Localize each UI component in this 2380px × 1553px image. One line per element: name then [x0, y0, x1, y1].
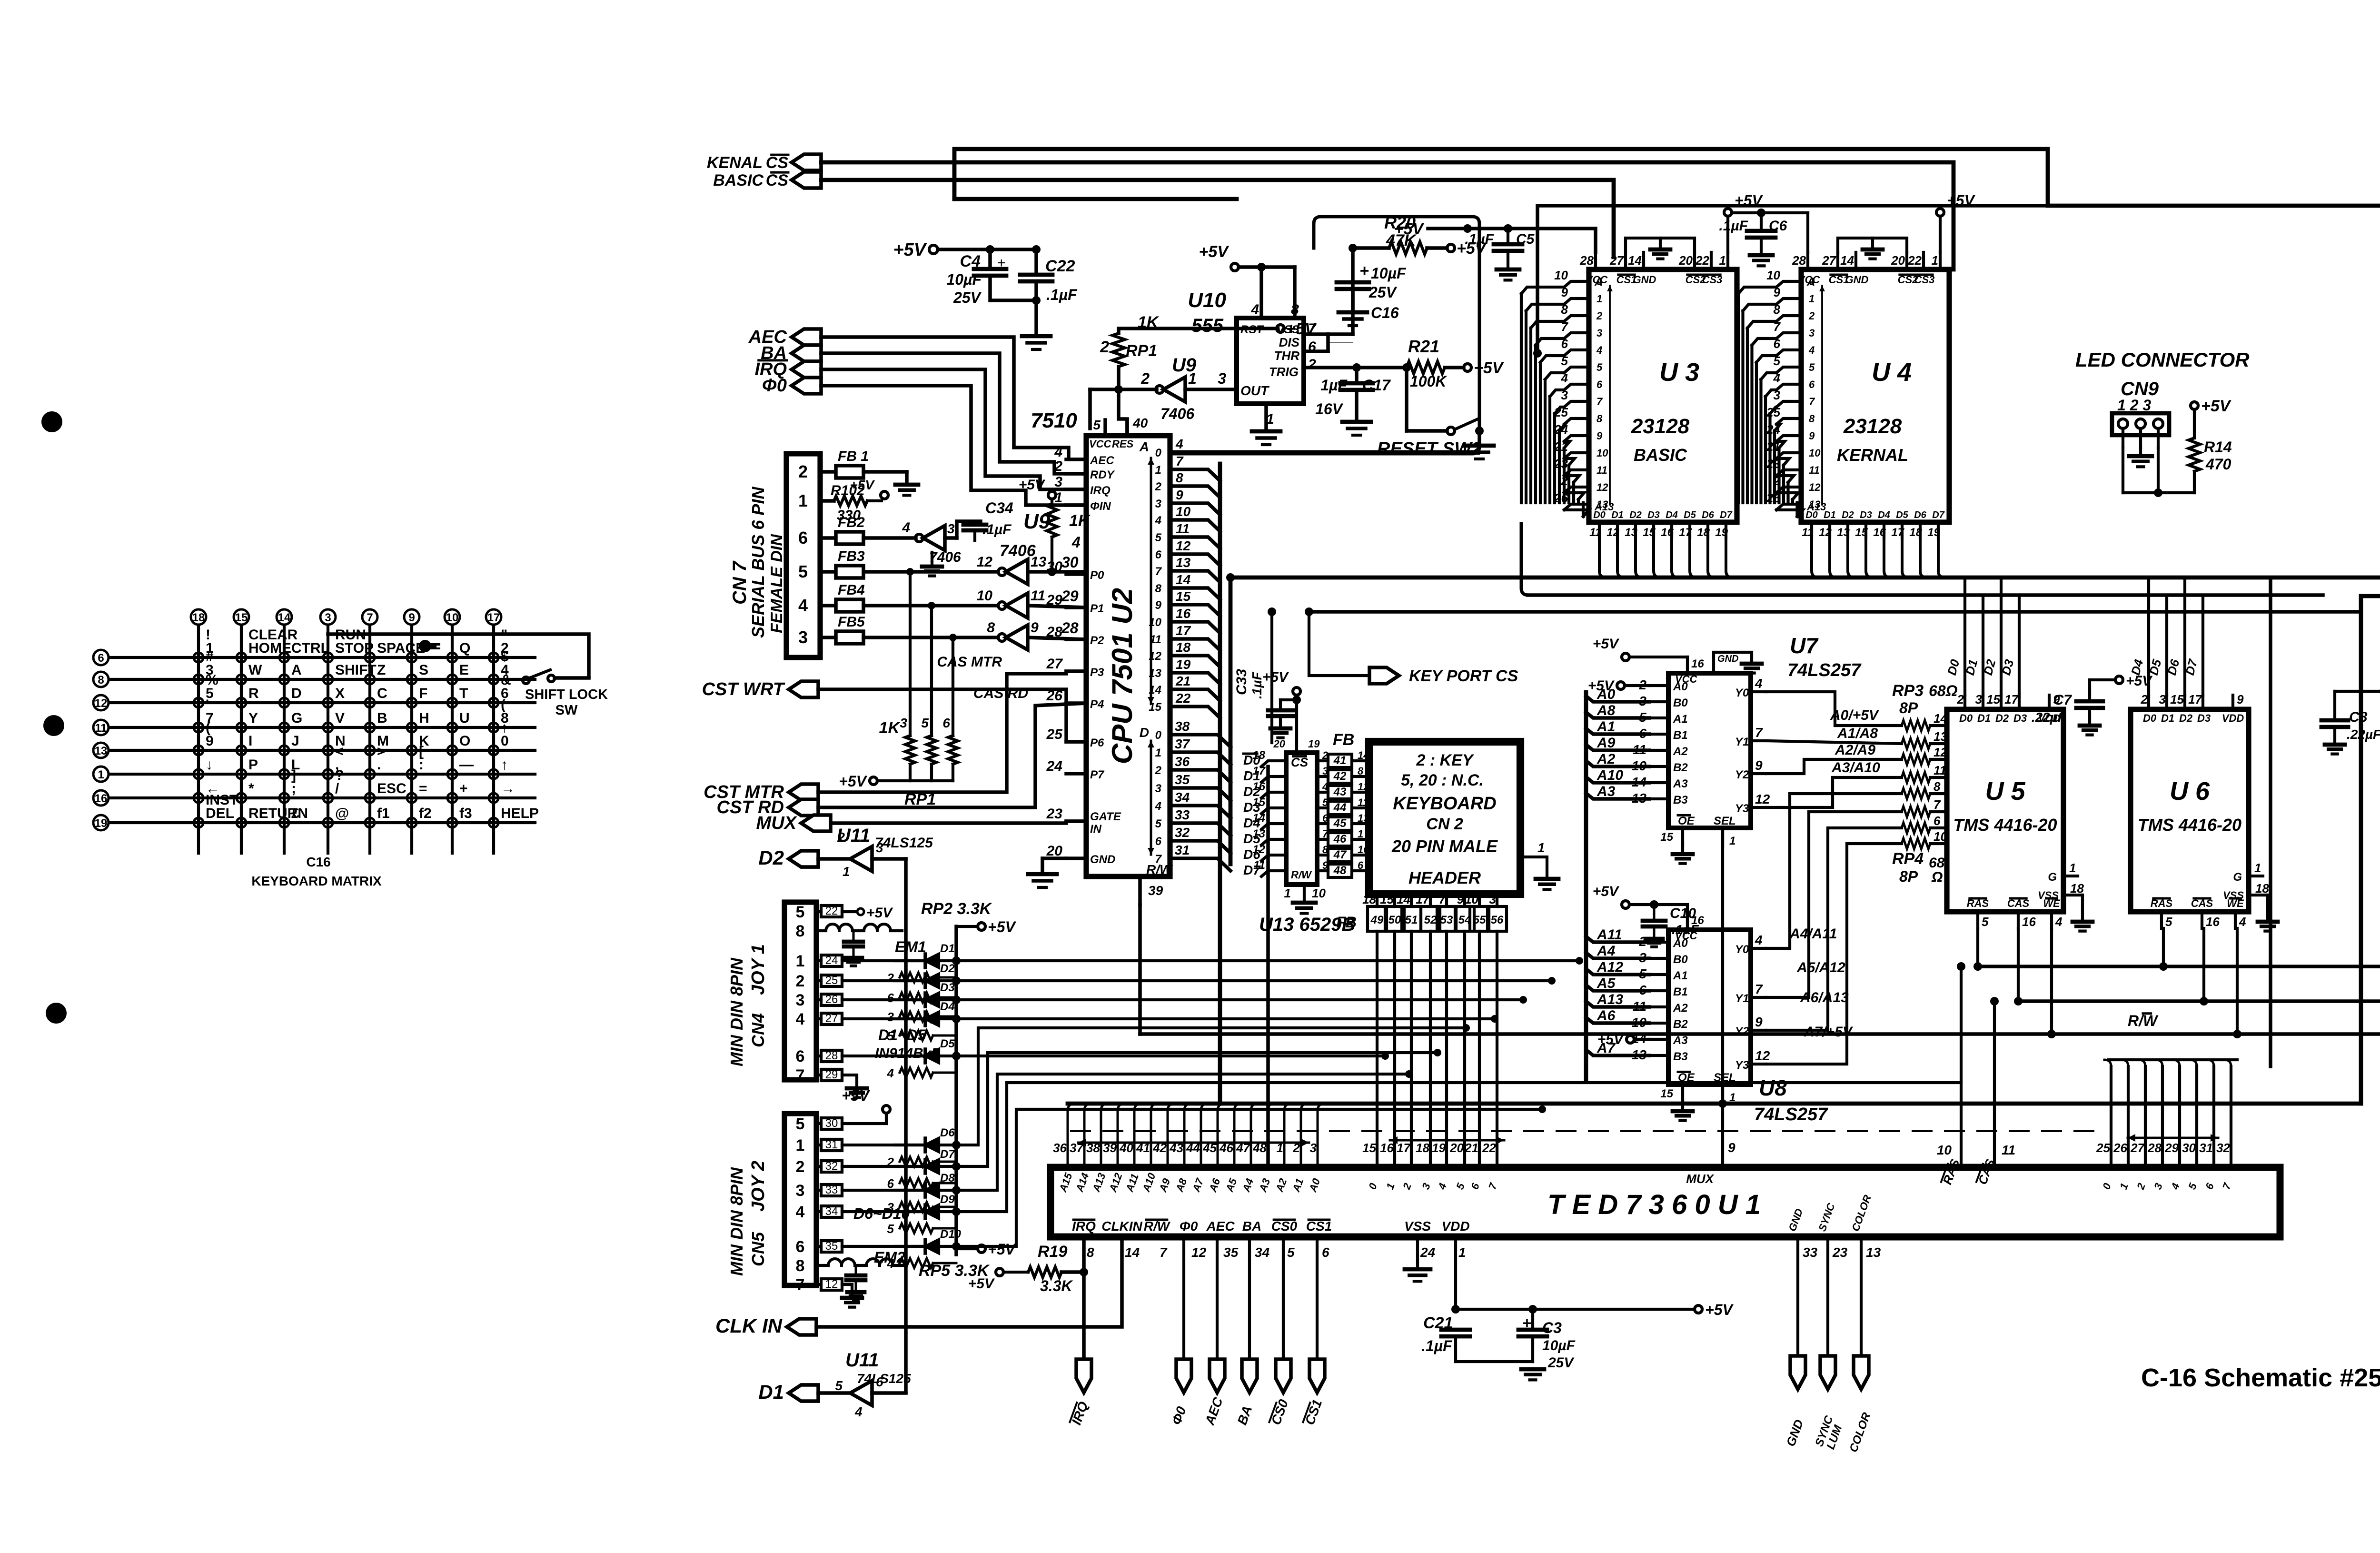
- svg-text:16V: 16V: [1315, 400, 1344, 418]
- svg-text:A3: A3: [1673, 1034, 1688, 1047]
- svg-text:*: *: [248, 781, 254, 796]
- TED bottom control pins: [1072, 1219, 1332, 1260]
- svg-text:A12: A12: [1597, 959, 1623, 975]
- svg-text:A: A: [1139, 439, 1149, 454]
- wire U3 data verticals: [1599, 538, 1733, 577]
- svg-text:3: 3: [947, 521, 955, 536]
- svg-text:43: 43: [1333, 786, 1347, 798]
- buffer to P1: [977, 587, 1086, 618]
- svg-text:CN4: CN4: [748, 1013, 768, 1047]
- ROM U3 power hookup: [1626, 192, 1763, 259]
- svg-text:6: 6: [1809, 378, 1815, 390]
- keyboard matrix grid wires: [109, 625, 535, 853]
- svg-text:4: 4: [1250, 302, 1259, 318]
- svg-text:D10: D10: [940, 1228, 962, 1241]
- svg-text:20: 20: [1273, 738, 1286, 750]
- svg-text:53: 53: [1440, 914, 1453, 926]
- svg-text:10: 10: [1937, 1143, 1952, 1157]
- svg-text:→: →: [501, 781, 515, 796]
- svg-text:10µF: 10µF: [1542, 1338, 1576, 1354]
- svg-text:A0: A0: [1597, 687, 1616, 702]
- svg-text:56: 56: [1491, 914, 1504, 926]
- svg-text:R: R: [248, 686, 259, 701]
- svg-text:8: 8: [1176, 470, 1183, 485]
- svg-text:12: 12: [1176, 538, 1191, 553]
- svg-text:B0: B0: [1673, 697, 1688, 709]
- svg-text:34: 34: [1175, 790, 1190, 805]
- punch hole bottom: [46, 1003, 67, 1024]
- TED VSS VDD pins: [1404, 1219, 1470, 1281]
- svg-text:W: W: [2143, 1012, 2159, 1029]
- svg-text:TMS 4416-20: TMS 4416-20: [1953, 815, 2057, 835]
- svg-text:26: 26: [825, 993, 838, 1006]
- IC U 4 23128 KERNAL: [1766, 252, 1949, 539]
- connector CN9 LED: [2075, 348, 2250, 497]
- svg-text:R/W: R/W: [1144, 1219, 1171, 1234]
- svg-text:9: 9: [206, 733, 214, 749]
- svg-text:6: 6: [887, 1176, 894, 1191]
- wire BA to CPU: [821, 353, 1086, 474]
- svg-text:27: 27: [2130, 1141, 2145, 1155]
- svg-text:23128: 23128: [1843, 415, 1902, 438]
- punch hole middle: [43, 715, 64, 736]
- svg-text:A6/A13: A6/A13: [1800, 990, 1849, 1005]
- svg-text:P6: P6: [1090, 737, 1104, 749]
- svg-text:RST: RST: [1240, 323, 1264, 336]
- U13 CS KEY PORT: [1262, 669, 1320, 753]
- svg-text:A2: A2: [1673, 745, 1688, 758]
- TED bottom flags: [1069, 1237, 1325, 1427]
- svg-text:3.3K: 3.3K: [1040, 1277, 1073, 1294]
- svg-text:6: 6: [1155, 835, 1162, 848]
- svg-text:28: 28: [1061, 619, 1079, 637]
- svg-text:BASIC: BASIC: [1634, 445, 1687, 465]
- svg-text:0: 0: [1155, 447, 1162, 459]
- svg-text:+5V: +5V: [1019, 477, 1046, 493]
- svg-text:13: 13: [95, 745, 108, 757]
- svg-text:Y2: Y2: [1735, 768, 1749, 781]
- svg-text:47: 47: [1333, 848, 1347, 861]
- svg-text:5: 5: [1809, 361, 1815, 373]
- svg-text:+5V: +5V: [1262, 669, 1289, 685]
- svg-text:1: 1: [798, 491, 808, 510]
- TED address group arrow: [1078, 1139, 1309, 1146]
- svg-text:41: 41: [1333, 754, 1347, 767]
- svg-text:C16: C16: [1371, 304, 1399, 321]
- svg-text:Z: Z: [377, 662, 386, 678]
- svg-text:6: 6: [1322, 1245, 1329, 1260]
- svg-text:;: ;: [291, 781, 296, 796]
- svg-text:12: 12: [1755, 792, 1770, 806]
- svg-text:D7: D7: [940, 1148, 955, 1161]
- svg-text:42: 42: [1333, 770, 1347, 783]
- capacitor C16 10uF 25V: [1337, 262, 1407, 326]
- svg-text:A5/A12: A5/A12: [1796, 960, 1845, 976]
- U8 input labels: [1586, 927, 1649, 1056]
- svg-text:15: 15: [1660, 1087, 1673, 1100]
- svg-text:32: 32: [2216, 1141, 2230, 1155]
- svg-text:IRQ: IRQ: [1090, 484, 1111, 497]
- svg-text:VDD: VDD: [2222, 712, 2244, 724]
- svg-text:D: D: [1140, 725, 1149, 740]
- svg-text:15: 15: [1986, 692, 2000, 707]
- buffer U11 74LS125 D1: [789, 1350, 911, 1419]
- svg-text:6: 6: [98, 652, 104, 665]
- connector CN2 keyboard header: [1369, 742, 1520, 894]
- svg-text:SHIFT LOCK: SHIFT LOCK: [525, 687, 608, 702]
- svg-text:D2: D2: [940, 962, 955, 975]
- svg-text:2: 2: [1308, 357, 1316, 372]
- svg-text:17: 17: [2188, 692, 2202, 707]
- TED keyboard pins group: [1362, 1136, 1504, 1192]
- svg-text:A: A: [1594, 276, 1603, 289]
- svg-text:C10: C10: [1670, 906, 1696, 921]
- resistor R102 330: [831, 478, 888, 523]
- svg-text:1: 1: [1188, 370, 1197, 387]
- svg-text:7: 7: [1755, 982, 1763, 996]
- IC U 6 TMS4416-20: [2128, 577, 2278, 931]
- svg-text:+5V: +5V: [1199, 243, 1230, 261]
- svg-text:12: 12: [1191, 1245, 1207, 1260]
- svg-text:C4: C4: [960, 252, 981, 270]
- svg-text:C17: C17: [1362, 377, 1391, 394]
- svg-text:5: 5: [798, 562, 808, 581]
- svg-text:5: 5: [2165, 915, 2172, 929]
- svg-text:CS: CS: [766, 171, 789, 189]
- svg-text:18: 18: [2070, 881, 2084, 896]
- svg-text:7: 7: [367, 611, 373, 624]
- svg-text:HELP: HELP: [501, 806, 539, 821]
- svg-text:Y1: Y1: [1735, 992, 1749, 1005]
- svg-text:A4/A11: A4/A11: [1789, 926, 1837, 942]
- svg-text:4: 4: [796, 1203, 805, 1221]
- svg-text:100K: 100K: [1410, 373, 1448, 390]
- svg-text:7: 7: [1809, 396, 1815, 408]
- svg-text:D2: D2: [1842, 510, 1854, 520]
- TED video pins: [1783, 1193, 1881, 1454]
- svg-text:19: 19: [95, 817, 108, 830]
- svg-text:CAS MTR: CAS MTR: [937, 654, 1002, 670]
- svg-text:5: 5: [887, 1029, 894, 1043]
- svg-text:Y3: Y3: [1735, 802, 1749, 815]
- svg-text:FB: FB: [1336, 914, 1357, 931]
- svg-text:+5V: +5V: [1705, 1301, 1734, 1318]
- svg-text:T: T: [459, 686, 468, 701]
- diode D1 with resistor 2: [887, 942, 956, 985]
- svg-text:48: 48: [1333, 864, 1347, 877]
- CPU data pins D0-D7: [1140, 719, 1230, 871]
- svg-text:JOY 2: JOY 2: [748, 1161, 768, 1212]
- svg-text:.22µF: .22µF: [2032, 710, 2066, 725]
- svg-text:D6~D10: D6~D10: [853, 1205, 910, 1222]
- svg-text:28: 28: [2147, 1141, 2162, 1155]
- svg-text:LED CONNECTOR: LED CONNECTOR: [2075, 348, 2250, 371]
- svg-text:6: 6: [887, 991, 894, 1005]
- keyboard matrix row header circles: [93, 650, 109, 830]
- svg-text:27: 27: [1609, 253, 1624, 268]
- svg-text:D1: D1: [1611, 510, 1624, 520]
- svg-text:1: 1: [1358, 828, 1363, 840]
- svg-text:4: 4: [796, 1010, 805, 1028]
- IC U1 TED 7360: [1051, 1167, 2280, 1237]
- svg-text:4: 4: [1596, 344, 1602, 356]
- svg-text:W: W: [248, 662, 262, 678]
- svg-text:15: 15: [1362, 1141, 1376, 1155]
- svg-text:3: 3: [1155, 782, 1162, 795]
- svg-text:B3: B3: [1673, 1050, 1688, 1063]
- capacitor C3 10uF 25V: [1518, 1305, 1576, 1380]
- svg-text:A11: A11: [1597, 927, 1622, 943]
- svg-text:22: 22: [1695, 253, 1709, 268]
- svg-text:20: 20: [1678, 253, 1693, 268]
- TED MUX pin: [1686, 1104, 1735, 1186]
- net flag CST WRT: [702, 679, 818, 699]
- svg-text:G: G: [2048, 871, 2057, 884]
- wire A-trunk to muxes: [1584, 692, 1588, 1079]
- svg-text:=: =: [419, 781, 427, 796]
- svg-text:1: 1: [2069, 861, 2076, 875]
- capacitor C8 .22uF: [2321, 685, 2380, 754]
- wire RP3 to U5 pins: [0, 0, 0, 0]
- svg-text:P1: P1: [1090, 602, 1104, 615]
- svg-text:12: 12: [1597, 481, 1608, 493]
- ferrite bead EM2: [816, 1249, 906, 1300]
- svg-text:RES: RES: [1112, 438, 1134, 450]
- svg-text:10: 10: [1554, 268, 1568, 282]
- capacitor C5 .1uF: [1394, 220, 1596, 280]
- svg-text:KEY PORT CS: KEY PORT CS: [1409, 667, 1518, 685]
- svg-text:VSS: VSS: [2223, 889, 2244, 901]
- svg-text:ΦIN: ΦIN: [1090, 500, 1111, 513]
- svg-text:4: 4: [1175, 437, 1183, 451]
- svg-text:27: 27: [825, 1012, 838, 1025]
- svg-text:P3: P3: [1090, 666, 1104, 679]
- svg-text:D3: D3: [2013, 712, 2027, 724]
- diode ladder RP2: [921, 900, 1016, 1254]
- svg-text:10: 10: [1176, 504, 1191, 519]
- svg-text:CAS RD: CAS RD: [973, 686, 1028, 701]
- svg-text:1: 1: [1729, 835, 1735, 847]
- capacitor C4 10uF 25V: [946, 249, 1006, 306]
- svg-text:C16: C16: [306, 855, 330, 869]
- svg-text:6: 6: [942, 716, 950, 730]
- keyboard matrix column header circles: [191, 609, 501, 625]
- net flag CLK IN: [715, 1314, 816, 1337]
- svg-text:19: 19: [1308, 738, 1320, 750]
- svg-text:↑: ↑: [501, 757, 508, 773]
- svg-text:46: 46: [1333, 833, 1347, 846]
- svg-text:T E D 7 3 6 0 U 1: T E D 7 3 6 0 U 1: [1547, 1189, 1761, 1220]
- svg-text:1: 1: [796, 1136, 805, 1155]
- svg-text:19: 19: [1176, 657, 1191, 672]
- svg-text:15: 15: [1380, 892, 1394, 906]
- svg-text:15: 15: [2170, 692, 2184, 707]
- svg-text:11: 11: [95, 722, 107, 735]
- svg-text:CTRL: CTRL: [291, 640, 329, 656]
- svg-text:3: 3: [798, 627, 808, 647]
- svg-text:STOP: STOP: [335, 640, 374, 656]
- IC U 3 23128 BASIC: [1554, 252, 1737, 539]
- svg-text:4: 4: [902, 520, 910, 536]
- svg-text:9: 9: [1809, 430, 1815, 442]
- svg-text:5: 5: [921, 716, 929, 730]
- svg-text:D2: D2: [2179, 712, 2193, 724]
- svg-text:17: 17: [487, 611, 500, 624]
- IC U 5 TMS4416-20: [1944, 577, 2092, 931]
- svg-text:8: 8: [1934, 779, 1941, 794]
- wire reset net down: [1088, 389, 1092, 428]
- wire AEC to CPU: [821, 337, 1086, 459]
- svg-text:17: 17: [1397, 1141, 1411, 1155]
- svg-text:D0: D0: [1593, 510, 1606, 520]
- svg-text:7: 7: [1160, 1245, 1168, 1260]
- svg-text:KENAL: KENAL: [707, 154, 763, 172]
- svg-text:8P: 8P: [1899, 868, 1918, 885]
- capacitor C17 1uF 16V: [1315, 368, 1391, 435]
- capacitor C33 .1uF: [1234, 669, 1301, 738]
- svg-text:470: 470: [2205, 456, 2231, 473]
- svg-text:4: 4: [798, 596, 808, 615]
- svg-text:1K: 1K: [879, 719, 901, 737]
- ferrite bead FB22: [816, 905, 893, 921]
- svg-text:3: 3: [1218, 370, 1226, 387]
- svg-text:RP3: RP3: [1892, 682, 1924, 700]
- wire 555 power: [1199, 243, 1295, 318]
- svg-text:3: 3: [325, 611, 331, 624]
- svg-text:35: 35: [1223, 1245, 1239, 1260]
- svg-text:VSS: VSS: [2038, 889, 2059, 901]
- svg-text:30: 30: [1061, 554, 1079, 571]
- svg-text:FB 1: FB 1: [838, 448, 869, 464]
- svg-text:D1: D1: [940, 942, 955, 955]
- svg-text:24: 24: [1420, 1245, 1436, 1260]
- svg-text:5, 20 : N.C.: 5, 20 : N.C.: [1401, 771, 1484, 789]
- CPU R/W pin 39: [1140, 862, 1173, 905]
- svg-text:1: 1: [1537, 840, 1545, 855]
- connector CN7 serial bus: [729, 454, 834, 657]
- diode D6 with resistor 2: [887, 1126, 956, 1169]
- svg-text:68Ω: 68Ω: [1929, 682, 1958, 699]
- svg-text:1K: 1K: [1138, 313, 1160, 331]
- IC U8 74LS257: [1632, 914, 1828, 1125]
- U7 GND pin8: [1714, 652, 1762, 673]
- svg-text:+5V: +5V: [968, 1276, 995, 1292]
- svg-text:40: 40: [1132, 416, 1148, 430]
- svg-text:CST WRT: CST WRT: [702, 679, 785, 699]
- net flag CST MTR: [704, 782, 818, 802]
- svg-text:+: +: [459, 781, 468, 796]
- svg-text:6: 6: [798, 528, 808, 548]
- svg-text:4: 4: [1755, 933, 1763, 947]
- svg-text:.22µF: .22µF: [2347, 727, 2380, 742]
- svg-text:11: 11: [1176, 521, 1190, 536]
- svg-text:25: 25: [2096, 1141, 2110, 1155]
- svg-text:.: .: [377, 757, 381, 773]
- svg-text:9: 9: [408, 611, 415, 624]
- capacitor C22 .1uF: [991, 249, 1078, 333]
- resistor RP1 1K pin4: [1019, 477, 1091, 576]
- svg-text:18: 18: [1176, 640, 1191, 655]
- resistor pack RP3 68ohm: [1892, 682, 1958, 849]
- svg-text:3: 3: [1597, 327, 1602, 339]
- svg-text:555: 555: [1191, 315, 1223, 336]
- svg-text:G: G: [2233, 871, 2242, 884]
- svg-text:30: 30: [825, 1117, 838, 1130]
- svg-text:6: 6: [796, 1238, 805, 1256]
- svg-text:GND: GND: [1090, 853, 1115, 866]
- svg-text:D2: D2: [1629, 510, 1642, 520]
- wire u13 gnd: [1284, 885, 1326, 913]
- svg-text:36: 36: [1053, 1141, 1067, 1155]
- svg-text:FEMALE DIN: FEMALE DIN: [768, 534, 786, 633]
- svg-text:7: 7: [1755, 725, 1763, 740]
- svg-text:1: 1: [1284, 886, 1291, 900]
- svg-text:16: 16: [1176, 606, 1191, 621]
- CPU address pins A0-A15 with bus staircase: [1139, 437, 1472, 718]
- svg-text:2: 2: [837, 830, 845, 845]
- ground 555 pin1: [1252, 404, 1280, 445]
- net flag BA: [761, 343, 821, 363]
- svg-text:9: 9: [1176, 488, 1183, 502]
- net flag MUX: [756, 813, 831, 833]
- svg-text:P4: P4: [1090, 698, 1104, 711]
- svg-text:D4: D4: [1878, 510, 1890, 520]
- joy2 FB boxes: [816, 1117, 842, 1291]
- svg-text:22: 22: [1175, 691, 1191, 706]
- svg-text:31: 31: [825, 1138, 838, 1151]
- svg-text:A1: A1: [1597, 719, 1615, 735]
- svg-text:9: 9: [1755, 758, 1763, 773]
- svg-text:11: 11: [2002, 1143, 2015, 1157]
- svg-text:7: 7: [1155, 853, 1162, 866]
- capacitor C34 .1uF: [963, 499, 1013, 540]
- svg-text:51: 51: [1405, 914, 1418, 926]
- svg-text:2: 2: [1155, 480, 1162, 493]
- svg-text:C6: C6: [1769, 218, 1787, 234]
- svg-text:25V: 25V: [1368, 284, 1398, 301]
- svg-text:9: 9: [1155, 599, 1162, 612]
- svg-text:2: 2: [1054, 458, 1062, 474]
- svg-text:8: 8: [1809, 413, 1815, 425]
- svg-text:D7: D7: [1720, 510, 1732, 520]
- U13 right pins to FB41-48: [1317, 749, 1369, 877]
- svg-text:↓: ↓: [206, 757, 213, 773]
- svg-text:C: C: [377, 686, 387, 701]
- svg-text:CS0: CS0: [1271, 1219, 1298, 1234]
- svg-text:68: 68: [1929, 855, 1945, 871]
- svg-text:TRIG: TRIG: [1269, 365, 1299, 379]
- svg-text:FB3: FB3: [838, 548, 865, 564]
- svg-text:A2/A9: A2/A9: [1835, 742, 1875, 758]
- svg-text:SEL: SEL: [1714, 815, 1736, 827]
- svg-text:X: X: [335, 686, 345, 701]
- svg-text:A7/+5V: A7/+5V: [1804, 1024, 1854, 1040]
- svg-text:TMS 4416-20: TMS 4416-20: [2138, 815, 2241, 835]
- svg-text:+: +: [997, 255, 1006, 271]
- svg-text:1: 1: [1155, 464, 1161, 477]
- keyboard key labels: [206, 627, 539, 821]
- TED D pins group: [2096, 577, 2271, 1192]
- svg-text:33: 33: [1175, 807, 1190, 822]
- svg-text:A2: A2: [1673, 1002, 1688, 1015]
- joy1 FB boxes: [816, 954, 842, 1081]
- diode D4 with resistor 5: [887, 1000, 956, 1043]
- svg-text:FB: FB: [1333, 731, 1354, 749]
- svg-text:5: 5: [1597, 361, 1603, 373]
- buffer U11 74LS125 D2: [789, 825, 933, 879]
- svg-text:20: 20: [1891, 253, 1905, 268]
- svg-text:P7: P7: [1090, 768, 1105, 781]
